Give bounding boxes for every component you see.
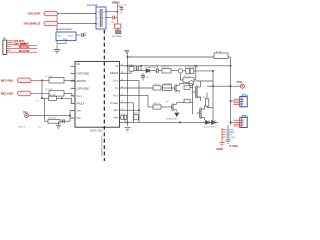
svg-text:14: 14	[121, 79, 123, 81]
svg-text:CATHODE: CATHODE	[77, 87, 90, 91]
svg-text:D2 BAV21W: D2 BAV21W	[145, 66, 157, 69]
svg-text:2N7002DW: 2N7002DW	[166, 119, 177, 121]
svg-text:2: 2	[72, 72, 73, 74]
svg-text:GND2: GND2	[217, 149, 224, 151]
svg-text:3: 3	[72, 80, 73, 82]
svg-text:DESAT: DESAT	[110, 71, 119, 75]
svg-text:16: 16	[121, 64, 123, 66]
svg-text:U3 MCP1702-33: U3 MCP1702-33	[56, 29, 73, 31]
svg-text:MCU IN1: MCU IN1	[19, 46, 30, 49]
svg-text:Reinforced Isolation: Reinforced Isolation	[100, 136, 103, 158]
svg-text:GND: GND	[63, 39, 68, 41]
svg-text:MCU IN2: MCU IN2	[19, 50, 30, 53]
svg-text:F1 5A: F1 5A	[216, 50, 222, 53]
svg-text:ANODE: ANODE	[77, 79, 86, 83]
svg-text:R11 10K: R11 10K	[48, 118, 57, 120]
svg-text:VDD1: VDD1	[112, 0, 120, 4]
svg-text:R16 10: R16 10	[162, 67, 170, 69]
svg-text:5V0 SUP: 5V0 SUP	[28, 12, 40, 16]
svg-text:R12 C4: R12 C4	[18, 126, 26, 128]
svg-text:7: 7	[72, 109, 73, 111]
svg-text:R17 4.7: R17 4.7	[184, 76, 192, 78]
svg-text:LTV-356T: LTV-356T	[163, 83, 173, 85]
svg-text:VOUT: VOUT	[68, 36, 75, 38]
svg-text:NC: NC	[77, 62, 81, 66]
svg-text:R22 10: R22 10	[199, 97, 207, 99]
svg-text:R19 10: R19 10	[153, 84, 161, 86]
svg-text:PS1 R1SE: PS1 R1SE	[87, 5, 98, 7]
svg-text:ACPL-339J: ACPL-339J	[90, 130, 104, 133]
svg-text:R2 1.0K: R2 1.0K	[45, 89, 53, 91]
svg-text:13: 13	[121, 86, 123, 88]
svg-text:12: 12	[121, 94, 123, 96]
svg-text:VIN: VIN	[57, 36, 61, 38]
svg-text:15: 15	[121, 72, 123, 74]
svg-text:5V0 SHIELD: 5V0 SHIELD	[24, 22, 41, 26]
svg-text:FB1 BEAD: FB1 BEAD	[112, 35, 123, 38]
svg-text:11: 11	[121, 101, 123, 103]
svg-text:B_GND: B_GND	[230, 146, 238, 148]
svg-text:R3 10K: R3 10K	[49, 94, 57, 96]
svg-text:D5,D6 BZT52: D5,D6 BZT52	[204, 127, 218, 129]
svg-text:R1 1.0K: R1 1.0K	[45, 76, 53, 78]
svg-text:8: 8	[72, 117, 73, 119]
svg-text:TP14: TP14	[237, 81, 243, 84]
svg-text:6: 6	[72, 102, 73, 104]
svg-text:FAULT: FAULT	[77, 101, 85, 105]
svg-text:MCU IN1: MCU IN1	[1, 79, 13, 83]
svg-text:CATHODE: CATHODE	[77, 72, 90, 76]
svg-text:B_KELVIN: B_KELVIN	[226, 137, 236, 139]
svg-text:4x 2N7002DW: 4x 2N7002DW	[185, 67, 199, 69]
svg-text:10: 10	[121, 109, 123, 111]
svg-text:1: 1	[72, 65, 73, 67]
svg-text:4: 4	[72, 87, 73, 89]
svg-text:5: 5	[72, 94, 73, 96]
svg-text:TP8: TP8	[23, 111, 28, 114]
svg-text:R20 10: R20 10	[153, 103, 161, 105]
svg-text:MCU IN2: MCU IN2	[1, 92, 13, 96]
